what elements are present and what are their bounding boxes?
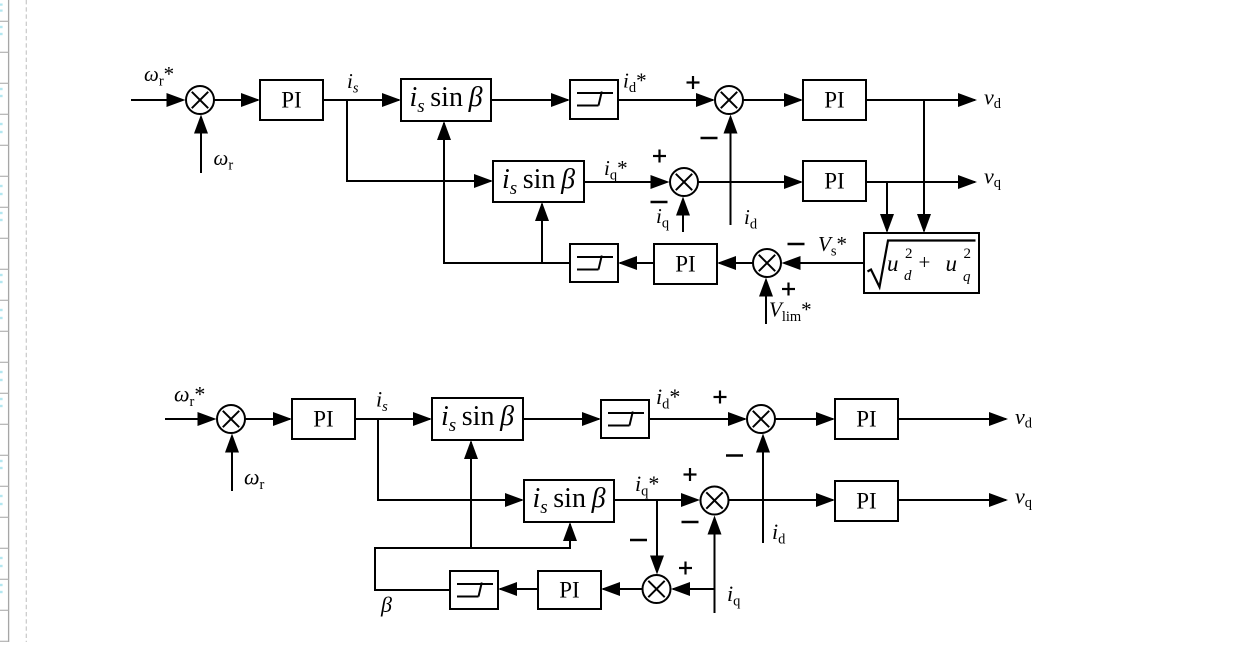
svg-text:u: u bbox=[946, 251, 958, 276]
svg-text:PI: PI bbox=[856, 407, 876, 432]
svg-text:d: d bbox=[904, 268, 912, 284]
svg-text:PI: PI bbox=[559, 578, 579, 603]
svg-text:PI: PI bbox=[675, 252, 695, 277]
svg-text:+: + bbox=[919, 250, 931, 274]
svg-text:PI: PI bbox=[824, 88, 844, 113]
svg-text:PI: PI bbox=[824, 169, 844, 194]
svg-text:PI: PI bbox=[313, 407, 333, 432]
svg-text:β: β bbox=[380, 592, 392, 617]
svg-text:PI: PI bbox=[281, 88, 301, 113]
svg-text:u: u bbox=[887, 251, 899, 276]
svg-text:q: q bbox=[963, 269, 971, 285]
svg-text:2: 2 bbox=[905, 246, 913, 262]
svg-text:PI: PI bbox=[856, 489, 876, 514]
svg-text:2: 2 bbox=[964, 246, 972, 262]
